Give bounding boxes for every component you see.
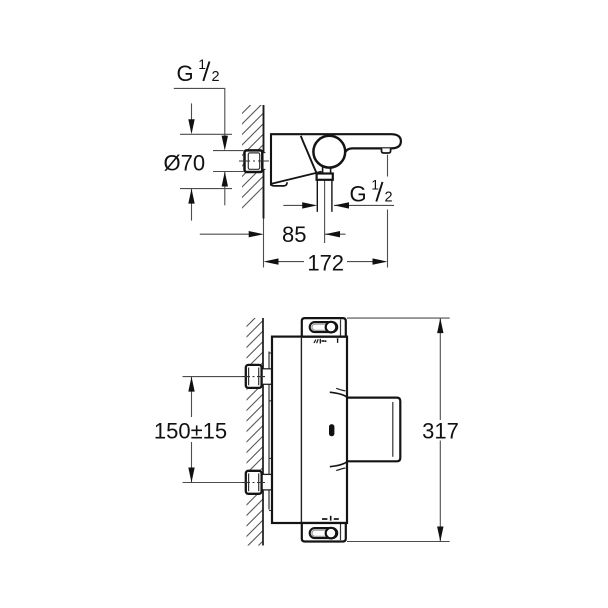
svg-text:1: 1	[371, 177, 379, 193]
svg-text:1: 1	[198, 56, 206, 72]
svg-text:G: G	[350, 182, 367, 207]
svg-text:150±15: 150±15	[154, 419, 227, 444]
svg-text:172: 172	[307, 250, 344, 275]
svg-text:85: 85	[282, 222, 306, 247]
svg-text:317: 317	[422, 419, 459, 444]
svg-text:G: G	[177, 61, 194, 86]
svg-text:2: 2	[212, 69, 220, 85]
svg-text:Ø70: Ø70	[164, 151, 206, 176]
svg-text:2: 2	[385, 189, 393, 205]
